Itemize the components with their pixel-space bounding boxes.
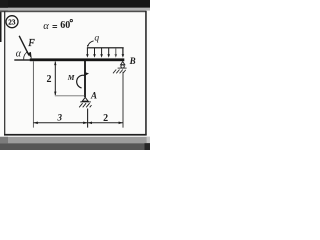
svg-text:q: q (94, 33, 99, 43)
left drop extension line (32, 61, 34, 127)
pin support A triangle (82, 97, 88, 101)
dim arrow left of 2 (88, 122, 92, 125)
dim arrow left of 3 (34, 122, 38, 125)
svg-text:2: 2 (103, 113, 108, 124)
roller B circle (121, 65, 124, 68)
bottom dark band (0, 143, 150, 150)
distributed load top line (87, 47, 124, 48)
svg-text:3: 3 (57, 112, 63, 122)
support B hatching (113, 70, 126, 74)
bottom grey band left darker patch (0, 137, 8, 143)
frame right border (145, 11, 147, 135)
svg-text:M: M (67, 73, 75, 82)
bottom right extension tick (122, 72, 124, 128)
dimension 2 vertical line (54, 62, 56, 96)
dim 2 top arrowhead (54, 62, 56, 66)
svg-text:2: 2 (47, 74, 52, 85)
left edge scan sliver (0, 11, 2, 42)
post (vertical member) (84, 61, 86, 97)
roller support B triangle (121, 62, 125, 65)
problem number badge circle 23 (6, 16, 18, 28)
svg-text:60: 60 (60, 20, 70, 31)
support A ground line (80, 101, 91, 103)
frame top border (0, 11, 147, 13)
bottom mid tick (87, 109, 89, 128)
svg-text:A: A (90, 91, 97, 101)
frame left border (4, 11, 5, 134)
q leader line (88, 41, 94, 46)
beam (30, 58, 125, 61)
load arrow 2 (94, 48, 96, 55)
svg-text:F: F (27, 38, 35, 49)
top-left corner dark blob (0, 0, 8, 12)
dim arrow right of 2 (119, 122, 123, 125)
svg-text:B: B (129, 56, 136, 66)
load arrow 1 (86, 48, 88, 55)
force F line (19, 36, 29, 56)
support A hatching (79, 103, 91, 107)
dim arrow right of 3 (83, 122, 87, 125)
bottom grey band (0, 137, 150, 143)
bottom grey band right lighter patch (147, 137, 150, 143)
load arrow 6 (122, 48, 124, 55)
svg-text:α: α (16, 48, 22, 59)
svg-text:α: α (43, 21, 49, 32)
frame bottom border (4, 134, 147, 136)
paper background (0, 0, 150, 150)
dim 2 bottom arrowhead (54, 92, 56, 96)
top scan black strip (0, 0, 150, 8)
force F arrowhead (28, 52, 32, 59)
load arrow 4 (108, 48, 110, 55)
svg-text:23: 23 (8, 18, 16, 26)
moment M arrowhead (84, 72, 89, 76)
angle arc (24, 52, 28, 60)
top grey band (0, 8, 150, 11)
support B ground line (118, 67, 127, 69)
moment M arc (77, 75, 85, 88)
load arrow 5 (115, 48, 117, 55)
angle reference line (14, 59, 30, 60)
extension line at A level (55, 95, 85, 97)
load arrow 3 (101, 48, 103, 55)
bottom dimension line (33, 122, 123, 124)
bottom dark band right darker corner (145, 143, 151, 150)
